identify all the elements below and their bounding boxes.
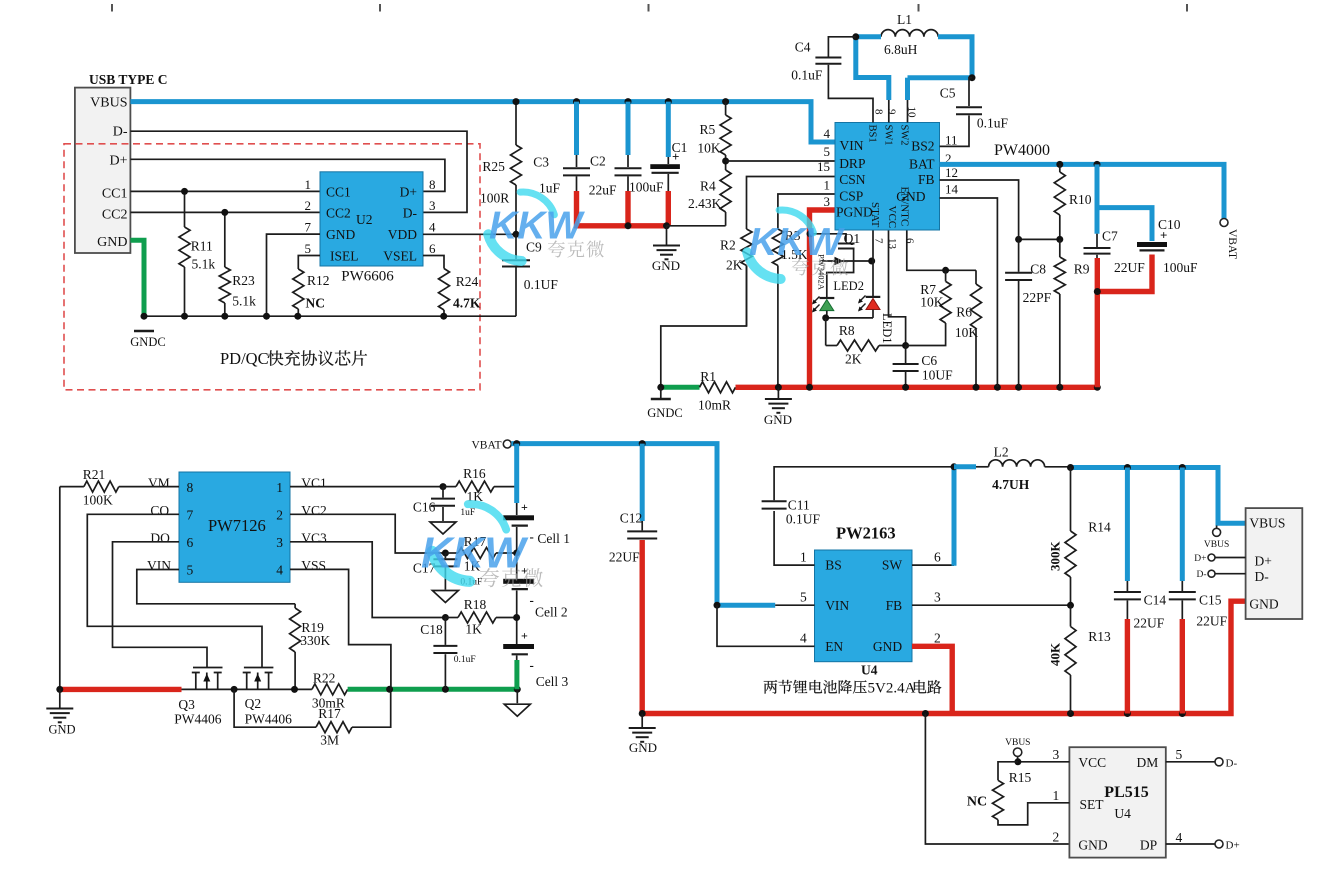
wire VBAT blue rail to PW2163 bbox=[511, 444, 775, 606]
svg-text:3M: 3M bbox=[320, 733, 339, 748]
svg-text:+: + bbox=[672, 149, 679, 164]
svg-text:SW: SW bbox=[882, 557, 903, 572]
svg-text:1uF: 1uF bbox=[539, 181, 561, 196]
wire VC3 pin3 bbox=[290, 542, 445, 618]
wire D- net bbox=[130, 131, 467, 212]
svg-text:C4: C4 bbox=[795, 40, 811, 55]
junction dot EN-R7 bbox=[942, 267, 949, 274]
svg-text:7: 7 bbox=[187, 507, 194, 522]
svg-text:22PF: 22PF bbox=[1023, 290, 1052, 305]
wire VC2 pin2 bbox=[290, 514, 445, 553]
capacitor C5 0.1uF bootstrap bbox=[969, 78, 972, 106]
svg-text:VSS: VSS bbox=[301, 558, 326, 573]
charger chip U1 PW4000 bbox=[835, 123, 940, 231]
capacitor C15 22UF bbox=[1180, 468, 1185, 582]
junction dot VCC-R8-C6 bbox=[902, 342, 909, 349]
svg-text:GND: GND bbox=[873, 639, 902, 654]
svg-text:R25: R25 bbox=[482, 159, 505, 174]
wire FB pin12 bbox=[940, 180, 1019, 239]
wire U2 VSEL pin6 bbox=[423, 256, 444, 269]
battery Cell 2 bbox=[503, 579, 534, 584]
wire GND red bus under C3 C2 C1 bbox=[574, 191, 579, 226]
junction dot CC1-R11 bbox=[181, 188, 188, 195]
svg-text:R14: R14 bbox=[1088, 520, 1111, 535]
svg-text:GND: GND bbox=[652, 258, 680, 273]
svg-text:5: 5 bbox=[187, 562, 194, 577]
svg-text:VIN: VIN bbox=[840, 138, 864, 153]
svg-text:PL515: PL515 bbox=[1104, 784, 1148, 801]
svg-text:DO: DO bbox=[150, 530, 170, 545]
svg-text:KKW: KKW bbox=[749, 221, 845, 264]
capacitor C3 1uF bbox=[574, 102, 579, 155]
svg-text:CC2: CC2 bbox=[326, 206, 351, 221]
svg-text:2.43K: 2.43K bbox=[688, 196, 722, 211]
svg-text:GND: GND bbox=[326, 227, 355, 242]
svg-text:R22: R22 bbox=[313, 671, 336, 686]
ground GNDC bbox=[134, 330, 154, 332]
svg-text:1: 1 bbox=[1053, 788, 1060, 803]
ground GND below C12 bbox=[641, 714, 643, 728]
transistor Q2 PW4406 bbox=[244, 667, 274, 669]
svg-text:USB TYPE C: USB TYPE C bbox=[89, 72, 168, 87]
svg-text:C18: C18 bbox=[420, 622, 443, 637]
terminal D- out bbox=[1208, 570, 1215, 577]
wire main red GND rail bbox=[736, 385, 1098, 390]
junction dots on VBUS rail bbox=[573, 98, 580, 105]
svg-text:CC1: CC1 bbox=[326, 185, 351, 200]
svg-text:R12: R12 bbox=[307, 273, 330, 288]
svg-text:1K: 1K bbox=[465, 622, 482, 637]
junction dot CC2-R23 bbox=[221, 209, 228, 216]
wire VIN pin5 U4 bbox=[775, 604, 814, 606]
svg-text:3: 3 bbox=[276, 535, 283, 550]
resistor R4 2.43K bbox=[725, 161, 727, 170]
svg-text:BS: BS bbox=[825, 557, 842, 572]
junction dot GNDC node bbox=[657, 384, 664, 391]
svg-text:Q3: Q3 bbox=[178, 697, 195, 712]
wire SW1 node blue bbox=[856, 34, 881, 39]
svg-text:+: + bbox=[521, 500, 528, 514]
resistor R7 10K bbox=[945, 270, 947, 281]
svg-text:VIN: VIN bbox=[825, 598, 849, 613]
op chip U2 PW6606 bbox=[320, 172, 423, 266]
svg-text:R11: R11 bbox=[191, 239, 213, 254]
transistor Q3 PW4406 bbox=[193, 667, 223, 669]
svg-text:U4: U4 bbox=[1114, 806, 1131, 821]
svg-text:40K: 40K bbox=[1048, 642, 1063, 666]
capacitor C4 0.1uF bootstrap bbox=[828, 37, 855, 57]
resistor R3 1.5K bbox=[772, 229, 783, 266]
svg-text:U2: U2 bbox=[356, 212, 373, 227]
junction dot VDD node bbox=[513, 231, 520, 238]
svg-text:0.1UF: 0.1UF bbox=[524, 277, 559, 292]
svg-text:100uF: 100uF bbox=[1163, 260, 1198, 275]
wire U2 VDD pin4 bbox=[423, 233, 516, 235]
svg-text:BS2: BS2 bbox=[911, 139, 934, 154]
svg-text:5: 5 bbox=[305, 241, 312, 256]
svg-text:1: 1 bbox=[305, 177, 312, 192]
svg-text:C8: C8 bbox=[1030, 262, 1046, 277]
svg-text:3: 3 bbox=[934, 590, 941, 605]
capacitor C10 100uF polarized bbox=[1097, 208, 1152, 241]
wire red battery negative bbox=[60, 687, 182, 692]
capacitor C9 0.1UF bbox=[515, 234, 517, 259]
svg-text:SET: SET bbox=[1080, 797, 1105, 812]
svg-text:VCC: VCC bbox=[886, 206, 898, 229]
wire blue drop to cells bbox=[514, 444, 519, 503]
resistor R11 5.1k bbox=[184, 191, 186, 227]
wire VCC pin13 bbox=[889, 230, 906, 346]
svg-text:D+: D+ bbox=[109, 154, 127, 169]
svg-text:PGND: PGND bbox=[836, 205, 873, 220]
svg-text:11: 11 bbox=[945, 133, 958, 148]
wire VIN pin5 to R19 bbox=[137, 570, 295, 604]
svg-text:D-: D- bbox=[113, 125, 128, 140]
svg-text:1: 1 bbox=[800, 550, 807, 565]
wire GND net bottom of PD/QC box bbox=[144, 315, 516, 317]
svg-text:6: 6 bbox=[934, 550, 941, 565]
svg-text:100K: 100K bbox=[83, 493, 113, 508]
capacitor C8 22PF bbox=[1018, 239, 1020, 271]
terminal VBAT bbox=[1220, 219, 1228, 227]
svg-text:5: 5 bbox=[800, 590, 807, 605]
svg-text:3: 3 bbox=[824, 194, 831, 209]
resistor R5 10K bbox=[725, 102, 727, 115]
svg-text:2K: 2K bbox=[845, 352, 862, 367]
junction dots on red rail bbox=[775, 384, 782, 391]
svg-text:NC: NC bbox=[306, 296, 326, 311]
svg-text:C14: C14 bbox=[1144, 593, 1167, 608]
svg-text:3: 3 bbox=[429, 198, 436, 213]
wire STAT pin7 to LED1 bbox=[872, 230, 874, 261]
capacitor C11 0.1UF bootstrap bbox=[774, 511, 814, 565]
junction dot VBUS-R25 bbox=[513, 98, 520, 105]
wire red output GND rail bbox=[642, 601, 1245, 713]
svg-text:R8: R8 bbox=[839, 323, 855, 338]
svg-text:C16: C16 bbox=[413, 500, 436, 515]
svg-text:DRP: DRP bbox=[839, 156, 865, 171]
wire FB node bbox=[1019, 238, 1060, 240]
svg-text:7: 7 bbox=[305, 220, 312, 235]
resistor R24 4.7K bbox=[439, 269, 450, 311]
svg-text:CO: CO bbox=[150, 503, 169, 518]
svg-text:VC3: VC3 bbox=[301, 530, 327, 545]
svg-text:C12: C12 bbox=[620, 511, 643, 526]
svg-text:C5: C5 bbox=[940, 86, 956, 101]
svg-text:GND: GND bbox=[1078, 838, 1107, 853]
ground GNDC near R1 bbox=[660, 387, 662, 398]
LED LED2 green bbox=[820, 297, 835, 299]
wire R2 bottom to GNDC node bbox=[661, 266, 747, 388]
svg-text:R15: R15 bbox=[1009, 770, 1032, 785]
PD/QC dashed box bbox=[64, 144, 480, 390]
svg-text:GND: GND bbox=[764, 412, 792, 427]
svg-text:R17: R17 bbox=[318, 706, 341, 721]
svg-text:NC: NC bbox=[967, 795, 987, 810]
svg-text:6.8uH: 6.8uH bbox=[884, 42, 918, 57]
inductor L2 4.7UH bbox=[954, 464, 976, 469]
svg-text:R24: R24 bbox=[456, 274, 479, 289]
svg-text:Cell 3: Cell 3 bbox=[536, 674, 569, 689]
svg-text:SW1: SW1 bbox=[883, 125, 894, 146]
svg-text:VBUS: VBUS bbox=[90, 96, 127, 111]
svg-text:BAT: BAT bbox=[909, 156, 935, 171]
svg-text:PW4406: PW4406 bbox=[245, 712, 293, 727]
capacitor C7 22UF bbox=[1095, 164, 1100, 233]
battery Cell 1 bbox=[503, 515, 534, 520]
wire under MOSFETs bbox=[182, 688, 312, 690]
svg-text:FB: FB bbox=[886, 598, 903, 613]
svg-text:22UF: 22UF bbox=[1114, 260, 1145, 275]
svg-text:4: 4 bbox=[800, 631, 807, 646]
svg-text:PW6606: PW6606 bbox=[341, 268, 394, 284]
wire CC1 bbox=[130, 190, 320, 192]
wire DO pin6 to Q3 gate bbox=[113, 542, 208, 668]
identifier chip PL515 bbox=[1069, 747, 1165, 857]
svg-text:4.7UH: 4.7UH bbox=[992, 477, 1030, 492]
wire CO pin7 to Q2 gate bbox=[87, 514, 262, 667]
svg-text:R10: R10 bbox=[1069, 192, 1092, 207]
svg-text:5.1k: 5.1k bbox=[232, 294, 256, 309]
svg-text:R2: R2 bbox=[720, 238, 736, 253]
svg-text:VSEL: VSEL bbox=[383, 249, 417, 264]
svg-text:6: 6 bbox=[904, 238, 916, 244]
svg-text:R4: R4 bbox=[700, 179, 716, 194]
svg-text:5: 5 bbox=[824, 144, 831, 159]
capacitor C1 100uF polarized bbox=[666, 102, 671, 157]
wire DRP pin5 bbox=[726, 160, 835, 162]
transistor Q1 PW3402A bbox=[810, 234, 846, 242]
resistor R25 100R bbox=[515, 102, 517, 145]
svg-text:D+: D+ bbox=[1255, 554, 1272, 569]
svg-text:U4: U4 bbox=[861, 663, 878, 678]
junction dots on GND net bbox=[141, 313, 148, 320]
svg-text:4: 4 bbox=[429, 220, 436, 235]
connector J2 USB out bbox=[1246, 508, 1303, 619]
svg-text:GND: GND bbox=[1249, 597, 1278, 612]
svg-text:GND: GND bbox=[48, 723, 75, 737]
wire LED anodes junction bbox=[826, 317, 873, 319]
svg-text:D-: D- bbox=[1255, 569, 1270, 584]
svg-text:4: 4 bbox=[1176, 830, 1183, 845]
svg-text:5.1k: 5.1k bbox=[192, 257, 216, 272]
svg-text:GND: GND bbox=[97, 235, 127, 250]
svg-text:R16: R16 bbox=[463, 466, 486, 481]
svg-text:10K: 10K bbox=[697, 141, 721, 156]
svg-text:+: + bbox=[521, 629, 528, 643]
svg-text:CSP: CSP bbox=[839, 189, 863, 204]
svg-text:2: 2 bbox=[934, 631, 941, 646]
svg-text:L2: L2 bbox=[994, 445, 1009, 460]
svg-text:9: 9 bbox=[886, 109, 898, 115]
wire BAT pin2 blue to VBAT bbox=[940, 164, 1225, 218]
svg-text:10K: 10K bbox=[920, 295, 944, 310]
wire CSN pin15 to R2 bbox=[747, 177, 836, 230]
svg-text:R1: R1 bbox=[700, 369, 716, 384]
svg-text:R23: R23 bbox=[232, 273, 255, 288]
svg-text:8: 8 bbox=[187, 480, 194, 495]
svg-text:22UF: 22UF bbox=[1134, 616, 1165, 631]
resistor R13 40K bbox=[1070, 605, 1072, 626]
svg-text:L1: L1 bbox=[897, 12, 912, 27]
resistor R17 3M bleed bbox=[234, 689, 316, 727]
wire USB GND (green) bbox=[130, 240, 144, 316]
svg-text:C7: C7 bbox=[1102, 229, 1118, 244]
junction dot L1 left bbox=[852, 33, 859, 40]
resistor R15 NC bbox=[998, 762, 1018, 781]
svg-text:1uF: 1uF bbox=[460, 508, 475, 518]
svg-text:GNDC: GNDC bbox=[647, 406, 682, 420]
svg-text:KKW: KKW bbox=[421, 529, 529, 578]
inductor L1 6.8uH bbox=[881, 30, 938, 37]
svg-text:0.1uF: 0.1uF bbox=[454, 655, 476, 665]
svg-text:KKW: KKW bbox=[489, 205, 585, 248]
svg-text:8: 8 bbox=[872, 109, 884, 115]
wire R7 bottom bbox=[906, 323, 946, 346]
wire 5V output blue rail bbox=[1071, 468, 1246, 524]
capacitor C18 0.1uF bbox=[444, 618, 446, 645]
wire LED2 cathode to Q1 bbox=[827, 261, 854, 298]
svg-text:10K: 10K bbox=[955, 325, 979, 340]
svg-text:PW2163: PW2163 bbox=[836, 524, 896, 543]
svg-text:R6: R6 bbox=[956, 305, 972, 320]
wire SW2 node blue bbox=[908, 37, 973, 78]
svg-text:D+: D+ bbox=[400, 185, 417, 200]
svg-text:4: 4 bbox=[824, 126, 831, 141]
wire U2 ISEL pin5 bbox=[298, 256, 320, 270]
resistor R14 300K bbox=[1070, 468, 1072, 532]
wire VCC pin3 PL515 bbox=[1018, 761, 1070, 763]
svg-text:Q2: Q2 bbox=[245, 696, 262, 711]
wire VBUS net bbox=[130, 102, 835, 142]
svg-text:+: + bbox=[1160, 228, 1167, 243]
resistor R6 10K bbox=[975, 270, 977, 284]
terminal VBUS small bbox=[1216, 526, 1218, 529]
svg-text:VBUS: VBUS bbox=[1204, 540, 1229, 550]
svg-text:VBUS: VBUS bbox=[1249, 516, 1285, 531]
svg-text:D-: D- bbox=[1226, 757, 1238, 769]
svg-text:12: 12 bbox=[945, 165, 958, 180]
svg-text:DP: DP bbox=[1140, 838, 1157, 853]
wire GND to PL515 bbox=[925, 714, 1069, 845]
watermark KKW 3 bbox=[468, 504, 506, 530]
buck chip U4 PW2163 bbox=[815, 550, 913, 662]
svg-text:4.7K: 4.7K bbox=[453, 296, 481, 311]
wire D+ net bbox=[130, 159, 445, 191]
resistor R9 bbox=[1059, 239, 1061, 257]
svg-text:ISEL: ISEL bbox=[330, 249, 359, 264]
wire EN pin4 U4 bbox=[717, 605, 815, 646]
svg-text:VIN: VIN bbox=[147, 558, 171, 573]
resistor R21 100K bbox=[60, 486, 84, 488]
watermark KKW 2 bbox=[779, 210, 813, 233]
svg-text:EN: EN bbox=[825, 639, 843, 654]
wire FB pin3 U4 bbox=[912, 604, 1071, 606]
resistor R18 1K bbox=[445, 617, 458, 619]
svg-text:-: - bbox=[530, 658, 534, 673]
wire GNDC green segment bbox=[661, 385, 700, 390]
svg-text:2K: 2K bbox=[726, 258, 743, 273]
wire PGND pin3 thick red bbox=[810, 210, 836, 387]
svg-text:D-: D- bbox=[403, 206, 418, 221]
wire VM to GND left bbox=[59, 487, 61, 690]
wire R4 bottom to GND node bbox=[667, 225, 726, 227]
svg-text:GNDC: GNDC bbox=[130, 335, 165, 349]
wire SW pin6 blue bbox=[912, 564, 954, 566]
svg-text:D-: D- bbox=[1196, 570, 1206, 580]
svg-text:GND: GND bbox=[629, 740, 657, 755]
svg-text:DM: DM bbox=[1137, 755, 1159, 770]
svg-text:0.1UF: 0.1UF bbox=[786, 512, 821, 527]
svg-text:SW2: SW2 bbox=[899, 125, 910, 146]
svg-text:-: - bbox=[530, 529, 534, 544]
svg-text:VC1: VC1 bbox=[301, 476, 327, 491]
svg-text:8: 8 bbox=[429, 177, 436, 192]
wire VSS pin4 bbox=[290, 569, 391, 689]
svg-text:6: 6 bbox=[187, 535, 194, 550]
svg-text:330K: 330K bbox=[300, 633, 330, 648]
LED LED1 red bbox=[866, 296, 881, 298]
terminal D+ out bbox=[1208, 554, 1215, 561]
resistor R8 2K bbox=[826, 345, 837, 347]
svg-text:13: 13 bbox=[886, 238, 898, 250]
svg-text:4: 4 bbox=[276, 562, 283, 577]
svg-text:CC1: CC1 bbox=[102, 186, 128, 201]
svg-text:VBAT: VBAT bbox=[1226, 229, 1238, 259]
junction dot DRP-R5-R4 bbox=[722, 158, 729, 165]
svg-text:VC2: VC2 bbox=[301, 503, 327, 518]
svg-text:C2: C2 bbox=[590, 154, 606, 169]
svg-text:FB: FB bbox=[918, 172, 935, 187]
svg-text:STAT: STAT bbox=[869, 202, 881, 228]
resistor R17 1K balance bbox=[445, 552, 458, 554]
svg-text:PW4406: PW4406 bbox=[174, 712, 222, 727]
svg-text:CC2: CC2 bbox=[102, 207, 128, 222]
battery Cell 3 bbox=[503, 644, 534, 649]
svg-text:D+: D+ bbox=[1194, 554, 1206, 564]
svg-text:C3: C3 bbox=[533, 155, 549, 170]
junction dot SW2-C5 bbox=[969, 74, 976, 81]
terminal VBUS for PL515 bbox=[1013, 748, 1021, 756]
svg-text:5: 5 bbox=[1176, 747, 1183, 762]
watermark KKW 1 bbox=[520, 192, 554, 215]
svg-text:VBUS: VBUS bbox=[1005, 738, 1030, 748]
svg-text:1: 1 bbox=[824, 178, 831, 193]
svg-text:300K: 300K bbox=[1048, 541, 1063, 572]
wire VC1 pin1 bbox=[290, 486, 443, 488]
wire GND pin14 bbox=[940, 198, 998, 387]
wire U2 GND pin7 bbox=[267, 234, 321, 316]
svg-text:EN/NTC: EN/NTC bbox=[899, 187, 911, 227]
svg-text:14: 14 bbox=[945, 181, 959, 196]
svg-text:10mR: 10mR bbox=[698, 398, 731, 413]
svg-text:R5: R5 bbox=[700, 122, 716, 137]
capacitor C12 22UF bbox=[640, 444, 645, 521]
svg-text:C6: C6 bbox=[921, 353, 937, 368]
svg-text:-: - bbox=[530, 593, 534, 608]
svg-text:Cell 1: Cell 1 bbox=[537, 531, 570, 546]
svg-text:C15: C15 bbox=[1199, 593, 1222, 608]
resistor R16 1K bbox=[443, 486, 456, 488]
capacitor C6 10UF bbox=[905, 346, 907, 364]
wire GND pin2 U4 red bbox=[912, 646, 952, 713]
junction dots on BAT wire bbox=[1056, 161, 1063, 168]
svg-text:R9: R9 bbox=[1074, 262, 1090, 277]
svg-text:VM: VM bbox=[148, 476, 170, 491]
svg-text:LED2: LED2 bbox=[833, 279, 864, 293]
svg-text:0.1uF: 0.1uF bbox=[977, 116, 1009, 131]
svg-text:Cell 2: Cell 2 bbox=[535, 605, 568, 620]
